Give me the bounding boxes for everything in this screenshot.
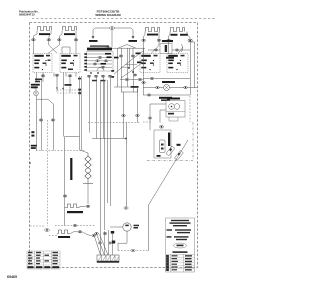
wire center bundle <box>90 77 111 206</box>
wire oven light row <box>143 87 198 89</box>
label latch bottom <box>157 155 161 157</box>
connector center drop <box>124 207 128 209</box>
connector mess b <box>131 55 135 57</box>
wire peak join <box>118 45 136 49</box>
pin blob a <box>111 70 114 72</box>
svg-text:WIRING DIAGRAM: WIRING DIAGRAM <box>95 13 121 17</box>
wire left col lower <box>64 197 66 225</box>
connector EOC out4 <box>108 75 112 77</box>
wire dashed latch row <box>143 121 151 123</box>
connector EOC out2 <box>94 75 98 77</box>
EOC wire row 4 <box>87 63 112 65</box>
connector oven harness b <box>108 242 112 244</box>
wire dashed mid horizontal <box>88 122 141 124</box>
motor box notch <box>169 117 178 121</box>
surface unit LR (element coil) <box>171 28 185 32</box>
wire motor left stub <box>110 226 122 228</box>
connector sweep <box>133 74 137 76</box>
connector LR-A <box>167 39 171 41</box>
label L2 lead <box>129 40 138 42</box>
connector feed row a <box>125 78 129 80</box>
connector TB left <box>154 49 158 51</box>
EOC wire row 2 <box>87 57 112 59</box>
terminal strip <box>97 255 119 263</box>
connector lower right row <box>147 94 151 96</box>
svg-text:69469: 69469 <box>7 275 17 279</box>
connector below RF switch <box>68 75 72 77</box>
connector mid row d <box>103 232 107 234</box>
wire latch left leg <box>150 104 166 130</box>
wire below RF switch <box>64 73 77 137</box>
label mess 3 <box>137 62 142 64</box>
wire row y87 <box>114 86 130 88</box>
door latch motor box <box>166 101 185 118</box>
label terminal block <box>162 40 173 42</box>
label oven light <box>162 81 175 83</box>
wire lamp top lead <box>33 88 36 91</box>
connector left col <box>63 195 67 197</box>
perforation line <box>32 18 215 20</box>
wire RF left lead <box>60 31 63 39</box>
connector TB right <box>175 49 179 51</box>
connector EOC r4 <box>93 63 97 65</box>
connector below mid switch <box>55 74 59 76</box>
wire bake lower right lead <box>68 232 78 234</box>
node mess j2 <box>132 71 134 73</box>
label LF surface unit <box>39 33 50 35</box>
wire mess v4 <box>129 48 131 68</box>
label surface indicator light line2 <box>31 86 38 88</box>
connector mess a <box>119 55 123 57</box>
ground symbol L1 <box>92 36 95 38</box>
wire left col upper <box>65 137 80 195</box>
connector dashed bottom <box>131 249 135 251</box>
connector RR-B <box>157 39 161 41</box>
label cam blob <box>177 144 181 146</box>
diagram border <box>30 23 198 268</box>
connector mid bottom <box>73 224 77 226</box>
infinite switch LR box <box>167 54 188 73</box>
connector bake row b <box>136 114 140 116</box>
connector feed row b <box>138 78 142 80</box>
latch cam lever 1 <box>166 146 175 156</box>
node EOC jb <box>97 72 99 74</box>
surface unit RR (element coil) <box>146 28 160 32</box>
connector dashed bottom left <box>45 229 50 232</box>
connector LR-B junction <box>188 39 192 43</box>
node small right of RF <box>78 78 81 80</box>
connector RR-A <box>142 39 146 41</box>
node EOC ja <box>90 72 92 74</box>
wire mid drops <box>124 87 138 114</box>
node bake tap lower <box>78 92 81 94</box>
infinite switch LF box <box>33 54 52 73</box>
wire right bus A <box>190 42 192 95</box>
wire right bus B <box>191 42 195 88</box>
wire fan diagonals <box>95 235 109 256</box>
infinite switch RR box <box>140 54 160 73</box>
connector RF-A <box>57 39 61 41</box>
wire LR left lead <box>169 32 171 40</box>
label L1 lead <box>89 40 98 42</box>
wire bake row drops <box>124 117 138 139</box>
wire LF switch feeds <box>33 41 59 54</box>
connector EOC out3 <box>101 75 105 77</box>
surface unit LF (element coil) <box>38 27 52 31</box>
EOC wire row 3 <box>87 60 112 62</box>
electronic oven control connector <box>106 47 111 49</box>
wire mess v1 <box>117 48 119 87</box>
connector oven light feed <box>150 77 154 79</box>
label left sensor <box>31 145 37 147</box>
indicator lamp surface <box>34 91 39 96</box>
wire dashed bottom right <box>118 250 148 252</box>
label door switch line2 <box>161 99 170 101</box>
connector EOC r3b <box>104 60 108 62</box>
wire latch diagonal long <box>149 140 189 251</box>
label row y87 <box>131 86 139 88</box>
wire drop group to connector <box>101 230 113 255</box>
svg-text:5995294713: 5995294713 <box>19 12 35 16</box>
wire RR right lead <box>158 32 160 40</box>
wire lamp bottom to row <box>37 96 54 151</box>
label EOC out row b <box>101 80 106 82</box>
wire LF left lead <box>34 31 38 39</box>
connector mid left a <box>39 119 43 121</box>
connector power center <box>110 27 115 30</box>
wire mess v3 <box>127 48 129 87</box>
latch switch box <box>154 130 171 158</box>
wire RF switch feeds <box>62 41 76 54</box>
bake lower coil <box>58 230 69 234</box>
connector EOC r3a <box>96 60 100 62</box>
component left sensor <box>31 131 34 136</box>
connector right bus c <box>142 81 146 83</box>
label motor <box>134 225 140 227</box>
EOC wire row 5 <box>87 66 112 68</box>
wire mess v2 <box>121 48 123 92</box>
EOC pin labels <box>84 53 87 71</box>
label RR surface unit <box>147 34 158 36</box>
bake element coil <box>83 153 93 184</box>
wire right dashed vertical <box>189 96 191 122</box>
node latch drop <box>125 138 127 140</box>
label LR surface unit 2 <box>171 34 178 36</box>
curve hook right <box>181 44 183 52</box>
wire bake lower curve <box>82 232 91 236</box>
EOC box <box>87 52 114 72</box>
surface unit RF (element coil) <box>63 27 77 31</box>
notes box <box>166 218 195 272</box>
wire LR right lead <box>187 32 190 40</box>
wire bake double drop <box>80 76 89 153</box>
connector bake row a <box>122 114 126 116</box>
label surface indicator light <box>31 84 40 86</box>
label electronic oven control line1 <box>90 45 109 46</box>
wire TB row <box>148 49 190 51</box>
label RF surface unit <box>64 33 75 35</box>
connector bake lower b <box>92 234 96 236</box>
wire mess h1 <box>121 65 137 68</box>
label left sensor line2 <box>31 147 36 149</box>
label latch vertical bar <box>168 133 170 147</box>
node wire dot a <box>56 87 57 88</box>
wire bake to broil coil <box>87 184 89 205</box>
label motor line2 <box>134 227 139 229</box>
wire oven light feed <box>143 78 190 80</box>
label door switch <box>159 97 172 99</box>
connector EOC r2 <box>98 56 102 58</box>
connector RF-B <box>74 39 78 41</box>
pin blob b <box>111 76 114 78</box>
node bake tap upper <box>78 89 81 91</box>
terminal block box <box>160 44 172 54</box>
wire mess v5 <box>133 48 144 95</box>
wire latch motor lead <box>160 110 166 123</box>
wire LF right lead <box>49 31 51 39</box>
wire feed row y79 <box>120 79 144 81</box>
node left border <box>29 162 31 164</box>
wire row y92 <box>121 89 138 92</box>
wire lower right row <box>143 94 190 96</box>
connector oven light a <box>156 86 160 88</box>
label mess 1 <box>114 57 119 59</box>
wire left drop B <box>41 80 43 151</box>
wire oven horizontal <box>92 138 127 140</box>
wire dashed left horizontal <box>36 150 85 152</box>
wire dashed bottom left <box>30 225 45 227</box>
connector mid row c <box>95 232 99 234</box>
door latch motor label <box>167 98 180 100</box>
wire LR switch feeds <box>169 42 183 54</box>
EOC wire row 1 <box>87 53 112 55</box>
connector small x113 <box>112 241 115 244</box>
connector latch lead <box>159 126 163 129</box>
dashed enclosure right <box>192 122 194 161</box>
broil element coil <box>67 204 81 208</box>
latch cam lever 2 <box>175 151 184 161</box>
wire RF right lead <box>75 31 77 39</box>
wire latch drop vertical <box>126 123 128 207</box>
connector oven light b <box>184 86 188 88</box>
ground symbol L2 <box>132 36 135 38</box>
label EOC r2 <box>107 56 112 58</box>
connector block mid <box>111 231 114 234</box>
label electronic oven control <box>87 48 112 51</box>
EOC relay arc <box>97 68 104 72</box>
connector EOC out1 <box>87 75 91 77</box>
infinite switch RF box <box>60 54 80 73</box>
label bake lower <box>58 236 70 238</box>
wire sweep diagonal 1 <box>114 51 143 74</box>
latch switch body <box>160 140 166 153</box>
wire power center drop <box>111 29 113 47</box>
label under LF oval <box>35 79 42 81</box>
label broil element <box>67 211 83 213</box>
label LR surface unit <box>180 34 188 36</box>
wire broil leads <box>65 207 86 208</box>
wire dashed left vertical <box>47 120 49 226</box>
motor latch drive <box>123 223 131 231</box>
dashed enclosure bottom <box>147 160 193 162</box>
oven lamp <box>164 85 170 91</box>
label EOC r1 <box>105 53 111 55</box>
wire mid bottom dashes <box>55 225 95 227</box>
connector mid left b <box>51 119 55 121</box>
connector EOC r5 <box>101 66 105 68</box>
label under LF oval line2 <box>35 81 40 83</box>
label under RF oval <box>65 84 72 86</box>
wire dashed step <box>49 234 57 236</box>
wire EOC top link <box>112 47 145 49</box>
label mess 2 <box>136 53 141 55</box>
connector LF-A <box>32 39 36 41</box>
label TB lower <box>166 57 174 59</box>
wire sweep diagonal 2 <box>121 62 143 78</box>
node mess j1 <box>128 67 130 69</box>
wire dashed pair to bake <box>57 90 78 93</box>
wire below LF switch <box>37 73 58 92</box>
connector latch left leg <box>148 117 152 119</box>
label bake element vertical <box>70 158 72 180</box>
wire color code table <box>27 251 60 269</box>
label EOC r4 <box>101 63 107 65</box>
connector broil right <box>86 205 90 207</box>
connector oven harness a <box>98 242 102 244</box>
wire center bundle 2 <box>101 80 108 230</box>
connector LF-B <box>47 39 51 41</box>
wire RR switch feeds <box>144 42 159 54</box>
label EOC out row a <box>92 80 97 82</box>
wire RR left lead <box>144 32 146 40</box>
connector below LF switch <box>41 75 45 77</box>
wire motor bottom <box>118 231 127 250</box>
connector bake lower a <box>78 231 82 233</box>
node wire dot b <box>62 88 63 89</box>
power supply cord split <box>93 28 133 36</box>
